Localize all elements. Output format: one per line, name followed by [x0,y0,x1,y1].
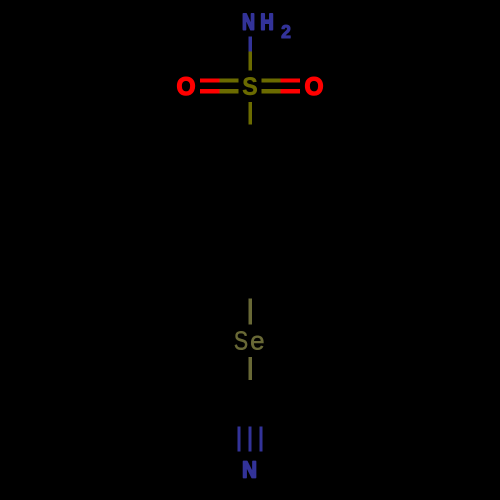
atom N1 amide nitrogen label NH2 [242,10,291,42]
bond C5#N2 triple bond middle line (upper black half) [248,402,251,426]
bond S1=O2 double bond bottom line (olive half) [261,89,280,94]
bond N1-S1 (lower half olive) [248,52,252,71]
bond S1-C1 (lower half black) [248,125,252,154]
svg-text:N: N [242,456,257,483]
bond C4-Se (upper half black) [248,271,252,299]
svg-text:S: S [242,73,257,101]
atom Se selenium label [234,326,265,357]
bond Se-C5 (lower half black) [248,380,252,404]
bond C5#N2 triple bond right line (lower blue half) [259,426,262,451]
svg-text:O: O [177,74,196,101]
bond S1=O2 double bond top line (red half) [281,78,300,82]
bond S1=O1 double bond top line (red half) [200,78,219,82]
bond C4-Se (lower half khaki) [248,299,252,325]
svg-text:H: H [260,10,273,35]
svg-text:e: e [250,326,264,356]
svg-text:N: N [242,11,255,35]
benzene ring C1-C2-C3-C4-C5-C6 (carbon, black on black) [199,153,301,271]
bond S1=O2 double bond top line (olive half) [261,78,280,82]
bond C5#N2 triple bond left line (lower blue half) [237,426,240,451]
bond S1=O1 double bond bottom line (olive half) [219,89,238,94]
svg-text:2: 2 [281,22,291,43]
bond C5#N2 triple bond right line (upper black half) [259,402,262,426]
bond S1=O2 double bond bottom line (red half) [281,89,300,94]
bond C5#N2 triple bond middle line (lower blue half) [248,426,251,451]
svg-text:O: O [305,74,324,101]
bond C5#N2 triple bond left line (upper black half) [237,402,240,426]
bond S1=O1 double bond top line (olive half) [219,78,238,82]
bond Se-C5 (upper half khaki) [248,357,252,380]
bond S1=O1 double bond bottom line (red half) [200,89,219,94]
bond N1-S1 (upper half blue) [248,37,252,52]
svg-text:S: S [234,327,248,357]
bond S1-C1 (upper half olive) [248,102,252,125]
